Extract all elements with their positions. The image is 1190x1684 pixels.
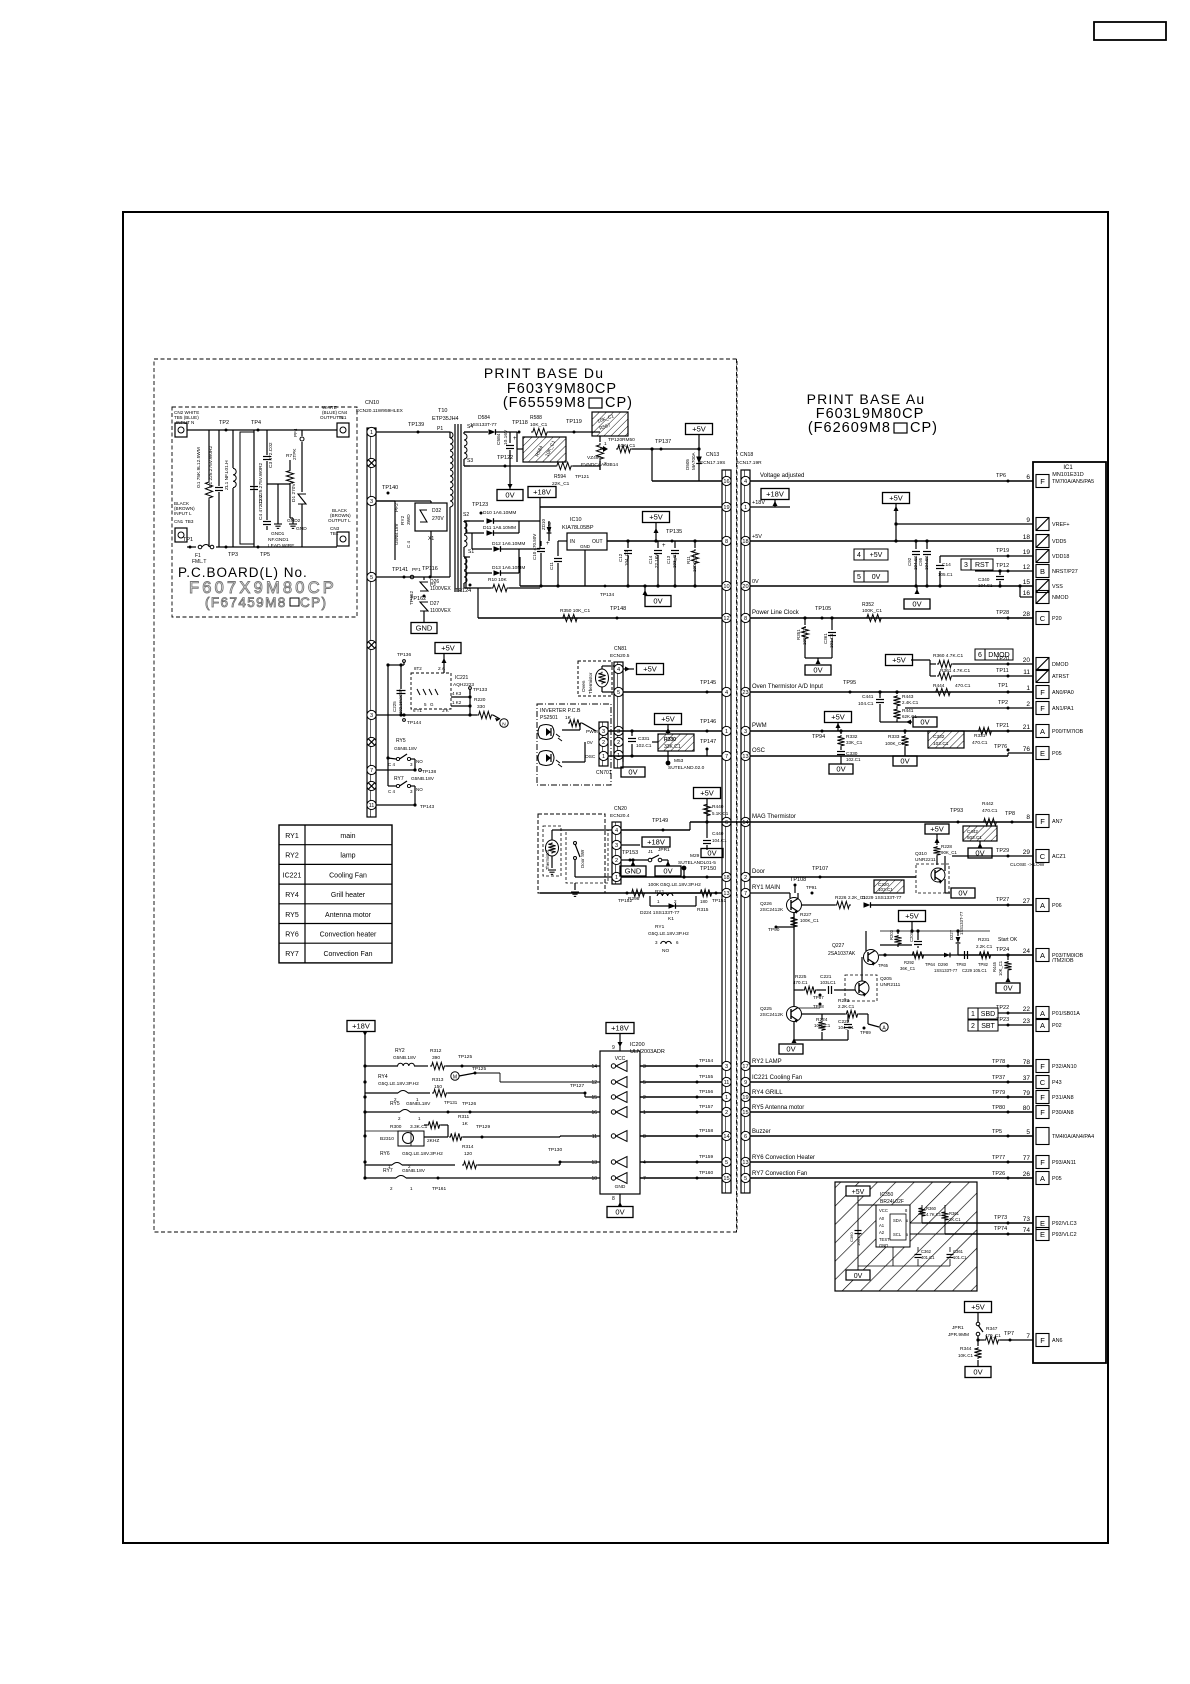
svg-text:37: 37 — [1023, 1075, 1031, 1082]
svg-text:0V: 0V — [615, 1208, 624, 1217]
ground near CN20 — [574, 883, 576, 890]
svg-text:8: 8 — [643, 1134, 646, 1140]
svg-text:3: 3 — [602, 729, 605, 735]
svg-text:G5NB.18V: G5NB.18V — [411, 776, 435, 782]
svg-text:8T2: 8T2 — [414, 666, 422, 671]
svg-text:SBT: SBT — [981, 1023, 995, 1030]
svg-text:4: 4 — [643, 1160, 646, 1166]
svg-text:26: 26 — [1023, 1171, 1031, 1178]
svg-text:P01/SB01A: P01/SB01A — [1052, 1011, 1080, 1017]
svg-text:RY2: RY2 — [285, 853, 299, 860]
+5V flag DMOD pullups — [886, 655, 913, 666]
svg-text:+18V: +18V — [352, 1022, 370, 1031]
svg-text:ECN20.5: ECN20.5 — [610, 653, 630, 659]
svg-text:19: 19 — [1023, 549, 1031, 556]
wire CN10 pin3 to PF2 — [376, 500, 395, 502]
svg-text:CP): CP) — [910, 420, 938, 436]
svg-text:Cooling Fan: Cooling Fan — [329, 872, 367, 879]
CN10 pin 3 at y501 — [367, 496, 376, 505]
capacitor C362 101.C1 — [917, 1247, 919, 1252]
microcontroller IC1 MN101E31D — [1033, 462, 1106, 1363]
net 0V rail — [750, 585, 1033, 587]
svg-text:0V: 0V — [1003, 984, 1012, 993]
svg-text:N: N — [502, 722, 506, 728]
svg-text:33K.C1: 33K.C1 — [664, 744, 681, 750]
svg-text:C 4: C 4 — [388, 789, 396, 794]
svg-text:+18V: +18V — [533, 488, 551, 497]
hatched capacitor C332 102.C1 — [928, 731, 964, 748]
svg-text:C95: C95 — [918, 557, 923, 566]
CN10 pin x at y463 — [367, 458, 376, 467]
svg-text:ULN2003ADR: ULN2003ADR — [630, 1049, 665, 1055]
svg-text:IC200: IC200 — [630, 1042, 645, 1048]
+5V flag EEPROM — [846, 1186, 870, 1196]
net Power Line Clock / P20 — [750, 617, 1033, 619]
resistor R588 10K_C1 — [531, 428, 549, 435]
svg-text:16: 16 — [723, 479, 729, 485]
svg-text:102.16V.KBP: 102.16V.KBP — [398, 689, 403, 714]
svg-text:1: 1 — [643, 1110, 646, 1116]
svg-text:1100VEX: 1100VEX — [430, 586, 451, 592]
svg-text:TP145: TP145 — [700, 680, 716, 686]
svg-text:RY6: RY6 — [380, 1151, 390, 1157]
svg-text:R440: R440 — [712, 804, 724, 810]
svg-text:Q310: Q310 — [915, 851, 927, 857]
0V flag under C442 — [979, 845, 981, 848]
svg-text:TP151: TP151 — [712, 898, 726, 904]
door switch dashed box — [566, 830, 608, 883]
net +5V rail — [750, 540, 1033, 542]
PRINT BASE Du dashed boundary — [154, 359, 737, 1232]
svg-text:TP3: TP3 — [228, 552, 238, 558]
svg-text:JPR1: JPR1 — [952, 1325, 964, 1331]
svg-text:RY7: RY7 — [394, 776, 404, 782]
CN13 pin 16 / CN18 pin 4 at y481 — [722, 476, 731, 485]
svg-text:20: 20 — [1023, 657, 1031, 664]
svg-text:TP29: TP29 — [996, 848, 1009, 854]
svg-text:104.C1: 104.C1 — [856, 1232, 861, 1246]
svg-text:503.C1: 503.C1 — [967, 835, 982, 840]
svg-text:TP27: TP27 — [996, 897, 1009, 903]
INVERTER P.C.B dash-dot box — [537, 704, 611, 785]
svg-text:G5NEL18V: G5NEL18V — [406, 1101, 431, 1107]
svg-text:2.2K.C1: 2.2K.C1 — [838, 1004, 855, 1009]
IC200 buffer in16 out1 — [616, 1107, 627, 1118]
svg-text:9: 9 — [744, 1080, 747, 1086]
test point TP5 — [257, 546, 260, 549]
svg-text:18: 18 — [723, 875, 729, 881]
svg-text:G5NB.18V: G5NB.18V — [394, 746, 418, 752]
svg-text:B2310: B2310 — [380, 1136, 394, 1142]
net PWM — [750, 730, 1033, 732]
svg-text:TP134: TP134 — [600, 592, 614, 598]
svg-text:470.C1: 470.C1 — [793, 980, 808, 985]
ground box GND — [411, 623, 437, 634]
svg-text:TP83: TP83 — [956, 962, 967, 967]
svg-text:3: 3 — [744, 729, 747, 735]
capacitor C440 104.C1 — [705, 820, 708, 823]
+5V flag AN6 — [965, 1302, 992, 1313]
svg-text:R311: R311 — [458, 1114, 469, 1120]
test point TP155 — [696, 1081, 699, 1084]
net RY2 LAMP — [750, 1065, 1033, 1067]
svg-text:150: 150 — [434, 1084, 442, 1090]
diode D229 1SS133T-77 — [864, 902, 871, 908]
test point TP157 — [696, 1111, 699, 1114]
IC200 buffer in15 out2 — [616, 1092, 627, 1103]
net Door — [750, 876, 916, 878]
svg-text:C: C — [1040, 852, 1046, 861]
+18V net — [528, 487, 556, 498]
svg-text:R314: R314 — [462, 1144, 474, 1150]
svg-text:main: main — [340, 833, 355, 840]
svg-text:3WD: 3WD — [406, 514, 412, 525]
svg-text:ECN20.4: ECN20.4 — [610, 813, 630, 819]
test point TP159 — [696, 1161, 699, 1164]
svg-text:TP150: TP150 — [700, 866, 716, 872]
svg-text:1: 1 — [615, 875, 618, 881]
0V flag EEPROM — [846, 1270, 870, 1280]
resistor R203 100K.C1 — [897, 931, 899, 934]
svg-text:+5V: +5V — [852, 1189, 865, 1196]
svg-text:VZ490: VZ490 — [587, 455, 601, 461]
resistor R333 100K.C1 — [904, 731, 906, 734]
svg-text:12: 12 — [591, 1080, 597, 1086]
svg-text:RY5 Antenna motor: RY5 Antenna motor — [752, 1105, 804, 1111]
+18V flag left — [347, 1021, 375, 1032]
0V flag CN20 — [655, 866, 681, 876]
diode D505 MA700A — [698, 434, 700, 481]
svg-text:Q205: Q205 — [880, 976, 892, 982]
wire CN10 pin11 row — [376, 804, 415, 806]
svg-text:PF4: PF4 — [293, 428, 298, 437]
svg-text:TP153: TP153 — [622, 850, 638, 856]
svg-text:7: 7 — [725, 754, 728, 760]
svg-text:CN20: CN20 — [614, 806, 627, 812]
svg-text:0V: 0V — [505, 491, 514, 500]
svg-text:13: 13 — [591, 1160, 597, 1166]
wire Q226 collector to P06 — [797, 893, 799, 899]
svg-text:8: 8 — [1026, 814, 1030, 821]
motor M circle — [451, 1072, 459, 1080]
svg-text:P93/VLC2: P93/VLC2 — [1052, 1232, 1077, 1238]
fuse F1 FML.T — [198, 545, 202, 549]
svg-text:G5Q.LE.18V.3P.H2: G5Q.LE.18V.3P.H2 — [378, 1081, 419, 1087]
test point TP93 — [957, 821, 960, 824]
connector CN701 — [599, 722, 608, 766]
svg-text:TP120: TP120 — [608, 437, 622, 443]
svg-text:13: 13 — [742, 754, 748, 760]
svg-text:R344: R344 — [960, 1346, 972, 1352]
svg-text:4 K3: 4 K3 — [452, 691, 462, 696]
0V flag under CN701 — [621, 767, 645, 777]
svg-text:TP76: TP76 — [994, 744, 1007, 750]
svg-text:0V: 0V — [900, 757, 909, 766]
varistor D27 1100VEX — [420, 602, 428, 611]
PWM wire — [608, 730, 722, 732]
svg-text:TP37: TP37 — [992, 1075, 1005, 1081]
capacitor C225 102.16V.XBP — [400, 665, 402, 689]
svg-text:TP2: TP2 — [219, 420, 229, 426]
svg-text:4.7K.C1: 4.7K.C1 — [926, 1212, 942, 1217]
hatched resistor R584 10K.C1 — [523, 437, 566, 462]
svg-text:(F62609M8: (F62609M8 — [808, 420, 891, 436]
svg-text:ECN17.19S: ECN17.19S — [700, 460, 725, 466]
TP153 jumper J1 JPR1 — [629, 859, 632, 862]
svg-text:5: 5 — [744, 1176, 747, 1182]
svg-text:D26: D26 — [430, 579, 439, 585]
svg-text:(F67459M8: (F67459M8 — [205, 595, 287, 610]
svg-text:1: 1 — [725, 729, 728, 735]
svg-text:9: 9 — [1026, 517, 1030, 524]
svg-text:103LC1: 103LC1 — [820, 980, 836, 985]
thermistor dashed inner — [543, 826, 561, 876]
choke ZL1 NF.L01.H — [240, 432, 254, 544]
svg-text:8: 8 — [612, 1196, 615, 1202]
terminal CN3 TB1 output L — [337, 532, 349, 546]
svg-text:D32: D32 — [432, 508, 441, 514]
svg-text:TP146: TP146 — [700, 719, 716, 725]
CN10 pin x at y786 — [367, 781, 376, 790]
svg-text:M: M — [453, 1075, 457, 1081]
capacitor C361 101.C1 — [831, 618, 833, 630]
CN10 pin 5 at y577 — [367, 572, 376, 581]
svg-text:11: 11 — [369, 803, 375, 809]
svg-text:D227: D227 — [949, 929, 954, 940]
terminal CN1 TB3 input L — [175, 528, 187, 542]
svg-text:6: 6 — [978, 652, 982, 659]
CN10 pin x at y645 — [367, 640, 376, 649]
capacitor C584 10.16V — [509, 432, 511, 443]
resistor R361 4.7K.C1 to ATRST — [937, 672, 953, 679]
resistor R445 10K.C1 vertical — [1007, 955, 1009, 960]
svg-text:1100VEX: 1100VEX — [430, 608, 451, 614]
resistor R226 2.2K.C1 — [835, 901, 851, 908]
svg-text:10: 10 — [723, 584, 729, 590]
svg-text:2: 2 — [725, 1110, 728, 1116]
svg-text:C: C — [1040, 614, 1046, 623]
svg-text:AN0/PA0: AN0/PA0 — [1052, 690, 1074, 696]
svg-text:A0: A0 — [879, 1216, 885, 1221]
svg-text:C: C — [1040, 1078, 1046, 1087]
svg-text:TP88: TP88 — [813, 1004, 824, 1009]
svg-text:1: 1 — [1026, 685, 1030, 692]
resistor RM50 10K_C1 — [616, 445, 632, 452]
svg-text:104.C1: 104.C1 — [712, 838, 727, 843]
svg-text:F: F — [1040, 1108, 1045, 1117]
svg-text:TP126: TP126 — [462, 1101, 476, 1107]
test point TP2 — [225, 429, 228, 432]
svg-text:TP158: TP158 — [699, 1128, 713, 1134]
svg-text:NO: NO — [416, 787, 423, 792]
svg-text:GND: GND — [580, 544, 591, 549]
svg-text:8: 8 — [725, 539, 728, 545]
CN10 pin 7 at y770 — [367, 765, 376, 774]
svg-text:10K.C1: 10K.C1 — [958, 1353, 974, 1358]
capacitor C229 105.C1 — [964, 951, 966, 959]
svg-text:R588: R588 — [530, 415, 542, 421]
resistor R441 62K.C1 — [893, 708, 900, 720]
svg-text:Antenna motor: Antenna motor — [325, 912, 372, 919]
svg-text:A: A — [1040, 901, 1045, 910]
svg-text:1: 1 — [971, 1011, 975, 1018]
svg-text:R333: R333 — [888, 734, 900, 740]
svg-text:TP105: TP105 — [815, 606, 831, 612]
svg-text:0V: 0V — [628, 768, 637, 777]
svg-text:16: 16 — [591, 1110, 597, 1116]
svg-text:A: A — [1040, 1009, 1045, 1018]
svg-text:18: 18 — [1023, 534, 1031, 541]
svg-text:15: 15 — [723, 1176, 729, 1182]
svg-text:TP6: TP6 — [996, 473, 1006, 479]
svg-text:A2: A2 — [879, 1230, 885, 1235]
svg-text:15: 15 — [742, 1110, 748, 1116]
svg-text:RY5: RY5 — [285, 912, 299, 919]
door signal wire — [621, 876, 722, 878]
resistor R361 2K.C1 eeprom — [944, 1205, 946, 1234]
svg-text:TP5: TP5 — [260, 552, 270, 558]
svg-text:FML.T: FML.T — [192, 559, 206, 565]
svg-text:LEAD WIRE: LEAD WIRE — [268, 543, 294, 549]
CN13 pin 14 / CN18 pin 6 at y1136 — [722, 1131, 731, 1140]
svg-text:2TPK: 2TPK — [292, 448, 297, 460]
svg-text:330: 330 — [477, 704, 485, 710]
svg-text:IC1: IC1 — [1063, 465, 1073, 471]
svg-text:CN13: CN13 — [706, 452, 719, 458]
svg-text:PWM: PWM — [752, 723, 767, 729]
test point TP154 — [696, 1065, 699, 1068]
svg-text:16: 16 — [1023, 590, 1031, 597]
svg-text:C361: C361 — [953, 1249, 964, 1254]
net P03 start OK — [958, 954, 1033, 956]
svg-text:R361 4.7K.C1: R361 4.7K.C1 — [940, 668, 970, 674]
thermistor RT oven — [596, 669, 609, 687]
svg-text:PF1: PF1 — [412, 567, 421, 573]
svg-text:1K: 1K — [462, 1121, 469, 1127]
net P06 test point — [1007, 904, 1010, 907]
svg-text:P32/AN10: P32/AN10 — [1052, 1064, 1077, 1070]
svg-text:AN6: AN6 — [1052, 1338, 1063, 1344]
svg-text:+18V: +18V — [752, 500, 765, 506]
net RY7 Convection Fan — [750, 1177, 1033, 1179]
svg-text:100K_C1: 100K_C1 — [862, 608, 882, 614]
T10 secondary winding S4-S3 — [464, 434, 467, 446]
net RY5 Antenna motor — [750, 1111, 1033, 1113]
svg-text:+5V: +5V — [892, 656, 906, 665]
svg-text:C14: C14 — [942, 562, 951, 568]
svg-text:MA700A: MA700A — [691, 451, 696, 470]
svg-text:TP5: TP5 — [992, 1129, 1002, 1135]
svg-text:M53: M53 — [674, 758, 684, 764]
net OSC — [750, 755, 1008, 757]
svg-text:C 4: C 4 — [406, 541, 411, 549]
svg-text:TP130: TP130 — [548, 1147, 562, 1153]
svg-text:ETP35JH4: ETP35JH4 — [432, 416, 459, 422]
svg-text:C10 470.50V: C10 470.50V — [532, 534, 537, 560]
svg-text:+5V: +5V — [441, 644, 455, 653]
svg-text:11: 11 — [724, 1080, 730, 1086]
T10 primary winding — [376, 431, 450, 433]
top-right title box — [1094, 22, 1166, 40]
svg-text:TP80: TP80 — [992, 1105, 1005, 1111]
svg-text:79: 79 — [1023, 1090, 1031, 1097]
svg-text:TP64: TP64 — [925, 962, 936, 967]
svg-text:RST: RST — [975, 562, 990, 569]
svg-text:Buzzer: Buzzer — [752, 1129, 771, 1135]
CN13 pin 4 / CN18 pin 23 at y692 — [722, 687, 731, 696]
svg-text:VCC: VCC — [879, 1208, 888, 1213]
svg-text:VSS: VSS — [1052, 584, 1063, 590]
power line clock row left — [478, 617, 722, 619]
node N circle — [500, 719, 508, 727]
svg-text:14: 14 — [742, 820, 748, 826]
svg-text:lamp: lamp — [340, 853, 355, 860]
capacitor C92 104.C1 — [915, 541, 917, 549]
svg-text:19: 19 — [723, 505, 729, 511]
svg-text:DMOD: DMOD — [988, 652, 1009, 659]
svg-text:76: 76 — [1023, 746, 1031, 753]
svg-text:+5V: +5V — [700, 789, 714, 798]
svg-text:RY1 MAIN: RY1 MAIN — [752, 885, 780, 891]
svg-text:3 K: 3 K — [442, 708, 449, 713]
net +18V stub — [750, 506, 790, 508]
CN13 pin 3 / CN18 pin 17 at y1066 — [722, 1061, 731, 1070]
svg-text:PF2: PF2 — [394, 503, 400, 512]
svg-text:BR24L02F: BR24L02F — [880, 1199, 904, 1205]
svg-text:CN81: CN81 — [614, 646, 627, 652]
svg-text:SUTELAND.02.0: SUTELAND.02.0 — [668, 765, 705, 771]
svg-text:C331: C331 — [638, 736, 650, 742]
svg-text:TP139: TP139 — [408, 422, 424, 428]
test point TP158 — [696, 1135, 699, 1138]
CN13 pin 1 / CN18 pin 19 at y1097 — [722, 1092, 731, 1101]
svg-text:D1 270V: D1 270V — [291, 483, 297, 502]
boxed ref 5 0V — [854, 571, 864, 582]
svg-text:TP1: TP1 — [183, 537, 193, 543]
svg-text:C13: C13 — [666, 555, 671, 564]
svg-text:Oven Thermistor A/D Input: Oven Thermistor A/D Input — [752, 684, 823, 690]
M53 SUTELAND.02.0 — [666, 761, 671, 766]
svg-text:103_C1: 103_C1 — [672, 552, 677, 568]
svg-text:TP148: TP148 — [610, 606, 626, 612]
svg-text:+5V: +5V — [971, 1303, 985, 1312]
svg-text:0V: 0V — [920, 718, 929, 727]
svg-text:P93/AN11: P93/AN11 — [1052, 1160, 1076, 1166]
svg-text:P92/VLC3: P92/VLC3 — [1052, 1221, 1077, 1227]
svg-text:RY6: RY6 — [285, 932, 299, 939]
svg-text:21: 21 — [1023, 724, 1031, 731]
svg-text:2SC2412K: 2SC2412K — [760, 1012, 784, 1018]
CN10 pin x at y742 — [367, 737, 376, 746]
svg-text:NRST/P27: NRST/P27 — [1052, 569, 1078, 575]
svg-text:TP135: TP135 — [666, 529, 682, 535]
net P93/VLC2 — [945, 1233, 1033, 1235]
svg-text:3: 3 — [643, 1064, 646, 1070]
svg-text:2: 2 — [971, 1023, 975, 1030]
svg-text:SBD: SBD — [981, 1011, 995, 1018]
CN13 pin 5 / CN18 pin 13 at y1162 — [722, 1157, 731, 1166]
svg-text:P43: P43 — [1052, 1080, 1062, 1086]
svg-text:Convection heater: Convection heater — [320, 932, 377, 939]
svg-text:80: 80 — [1023, 1105, 1031, 1112]
wire junction row 665 — [388, 664, 404, 666]
svg-text:IC221: IC221 — [283, 872, 302, 879]
svg-text:TP154: TP154 — [699, 1058, 713, 1064]
wire to voltage adjusted — [651, 449, 653, 481]
svg-text:2.2K.C1: 2.2K.C1 — [976, 944, 993, 949]
net Oven Thermistor A/D Input — [750, 691, 1033, 693]
svg-text:R228: R228 — [941, 844, 952, 849]
